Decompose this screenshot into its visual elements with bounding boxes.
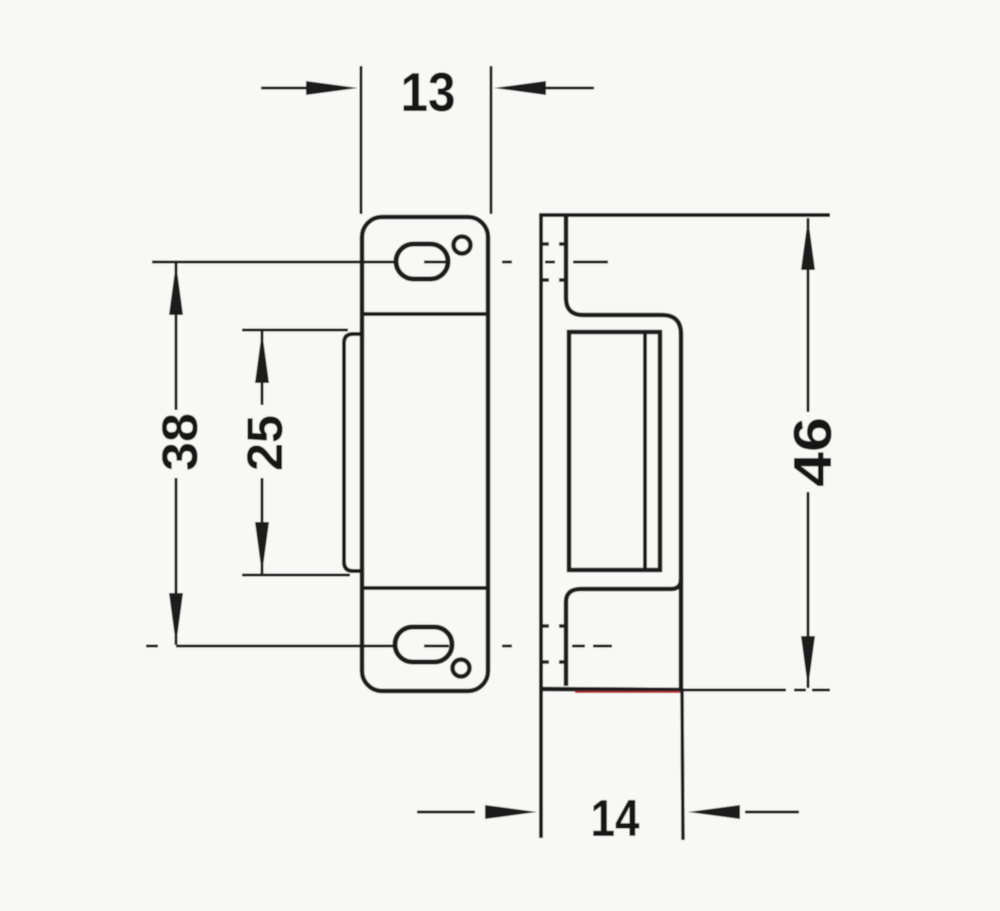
- upper pilot hole: [454, 237, 471, 254]
- dim 13: left extension line: [360, 66, 363, 214]
- centre line top (through upper screw slots): [152, 261, 608, 264]
- dim 46: bottom arrow: [801, 636, 815, 688]
- svg-text:13: 13: [401, 61, 456, 123]
- svg-text:25: 25: [237, 415, 293, 471]
- svg-text:14: 14: [591, 790, 640, 848]
- dim 25: bottom tick: [242, 574, 350, 577]
- mounting plate outline (front view): [362, 217, 488, 691]
- dim 46: dimension line: [807, 218, 810, 412]
- side view: bottom edge: [539, 689, 683, 690]
- side view: housing plateau bottom, lower S-curve, lower front edge: [566, 579, 681, 686]
- hidden line, lower slot bottom: [541, 660, 567, 664]
- dim 25: top tick: [242, 329, 348, 332]
- dim 38: bottom arrow: [169, 593, 183, 645]
- side view: plate back edge and 14-dim extension line: [539, 215, 543, 838]
- dim 14: left arrow: [417, 811, 475, 814]
- svg-text:46: 46: [783, 417, 843, 487]
- dim 13: right arrow: [540, 87, 594, 90]
- side view: 14-dim right extension line: [682, 690, 683, 840]
- lower screw slot: [395, 627, 452, 662]
- magnet pole divider: [643, 334, 647, 568]
- dim 46: top arrow: [801, 218, 815, 270]
- side view: plate front edge, upper S-curve, housing top, right edge: [566, 215, 681, 690]
- side view: plate top edge and 46-dim extension line: [539, 213, 830, 217]
- svg-text:38: 38: [152, 413, 208, 471]
- lower pilot hole: [453, 660, 470, 677]
- magnet block (side view): [569, 332, 660, 570]
- dim 38: dimension line: [175, 263, 178, 410]
- upper screw slot: [396, 244, 448, 279]
- hidden line, lower slot top: [541, 624, 567, 628]
- bottom extension line to 46 dimension (dash-dot): [683, 689, 830, 692]
- dim 13: left arrow: [261, 87, 315, 90]
- lower divider (housing bottom edge, front view): [362, 586, 488, 590]
- dim 25: dimension line: [261, 331, 264, 405]
- dim 25: bottom arrow: [255, 522, 269, 574]
- hidden line, upper slot top: [541, 242, 567, 246]
- scan artifact: red fringe on bottom edge: [575, 691, 681, 693]
- upper divider (housing top edge, front view): [362, 312, 488, 316]
- hidden line, upper slot bottom: [541, 278, 567, 282]
- dim 14: right arrow: [745, 811, 799, 814]
- centre line bottom (through lower screw slots): [146, 645, 612, 648]
- dim 38: top arrow: [169, 263, 183, 315]
- dim 13: right extension line: [490, 66, 493, 214]
- dim 25: top arrow: [255, 331, 269, 383]
- side tab of housing (front view, left): [344, 334, 362, 571]
